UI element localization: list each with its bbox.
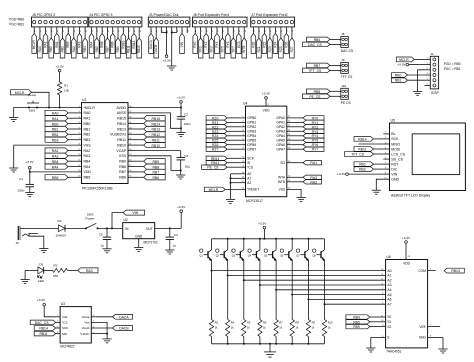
capacitor C4 1u: [166, 228, 178, 250]
net label RB3 (TFT D/C): [354, 167, 383, 172]
svg-text:S1: S1: [387, 320, 391, 324]
svg-text:1µ: 1µ: [100, 244, 104, 248]
svg-text:+3.3V: +3.3V: [25, 160, 34, 164]
net label RB0 (U1 pin 4): [45, 121, 77, 126]
resistor R7 1k: [274, 290, 283, 344]
net label RB15 (U1): [133, 116, 166, 121]
svg-text:MCLR: MCLR: [15, 91, 25, 95]
net label RY1 (J6 pin 2): [198, 27, 203, 58]
svg-text:R1: R1: [64, 84, 68, 88]
net label RB2 (TFT RST): [354, 162, 383, 167]
svg-text:J7 Port Expander Port2: J7 Port Expander Port2: [251, 13, 287, 17]
svg-text:RB7: RB7: [152, 171, 159, 175]
svg-text:PGD = RB0: PGD = RB0: [444, 62, 461, 66]
svg-text:RZ0: RZ0: [212, 116, 219, 120]
svg-text:DACB: DACB: [154, 45, 158, 54]
svg-text:RY1: RY1: [199, 46, 203, 52]
svg-text:RY0: RY0: [193, 41, 197, 47]
svg-text:RB6: RB6: [152, 176, 159, 180]
svg-text:RB4: RB4: [83, 46, 87, 52]
svg-text:INTB: INTB: [242, 46, 246, 53]
net label RY6 (U4 GPA6): [291, 143, 324, 148]
net label RB6 (U1): [133, 175, 166, 180]
svg-text:RB3: RB3: [359, 168, 366, 172]
resistor R1 10k: [57, 72, 69, 108]
svg-text:RA1: RA1: [52, 117, 59, 121]
ground (C2/AVSS): [176, 132, 185, 136]
svg-text:RB0: RB0: [395, 74, 402, 78]
svg-text:GND: GND: [391, 178, 399, 182]
net label RB8 (U1): [133, 164, 166, 169]
svg-text:VDD: VDD: [84, 170, 92, 174]
net label RZ2 (J7 pin 3): [262, 27, 267, 54]
ground (C3/VSS): [176, 170, 185, 179]
svg-text:PE CS: PE CS: [341, 101, 352, 105]
svg-text:PE_CS: PE_CS: [207, 166, 219, 170]
svg-text:Vdd: Vdd: [62, 315, 68, 319]
net label RB8 (J10): [307, 89, 341, 94]
resistor R4 1k: [226, 275, 235, 343]
svg-text:OUT: OUT: [146, 227, 153, 231]
net label RB10 (U1): [133, 143, 166, 148]
transistor Q6: [280, 239, 292, 295]
net label RB14 (U3 SCK): [34, 326, 56, 331]
wire TFT MISO stub: [358, 143, 383, 145]
svg-text:INTB: INTB: [278, 180, 285, 184]
svg-text:J4 PIC GPIO 3: J4 PIC GPIO 3: [89, 13, 112, 17]
net label RA0 (LED): [78, 268, 98, 273]
net label RZ6 (U4 GPB6): [206, 143, 241, 148]
svg-text:MCP4822: MCP4822: [60, 345, 74, 349]
wire J3 pins 5+6 to ground: [171, 27, 179, 66]
svg-text:DACB: DACB: [119, 327, 129, 331]
svg-text:A3: A3: [387, 283, 391, 287]
svg-text:LCD_CS: LCD_CS: [391, 152, 405, 156]
svg-text:A4: A4: [387, 288, 391, 292]
svg-text:RB7: RB7: [105, 46, 109, 52]
wire U3 *LDAC to ground: [96, 333, 107, 335]
capacitor C3 10u (VCAP): [133, 151, 191, 172]
net label TFT_CS (J9): [303, 68, 341, 73]
svg-text:J3 Power/DAC Out: J3 Power/DAC Out: [149, 13, 179, 17]
svg-text:RB5: RB5: [95, 46, 99, 52]
svg-text:RB2: RB2: [52, 133, 59, 137]
svg-text:GPA4: GPA4: [276, 134, 285, 138]
net label RB4 (J8): [307, 37, 341, 42]
wire Q1 emitter to U6 A0: [211, 270, 386, 272]
svg-text:SCK: SCK: [391, 137, 399, 141]
svg-text:RB15: RB15: [117, 117, 126, 121]
svg-text:VEE: VEE: [419, 325, 425, 329]
net label RY5 (U4 GPA5): [291, 138, 324, 143]
net label RB11 (J4 pin 8): [126, 27, 131, 58]
net label RZ5 (U4 GPB5): [206, 138, 241, 143]
wire U1 AVDD to +3.3V: [133, 103, 183, 108]
svg-text:GPA6: GPA6: [276, 143, 285, 147]
svg-text:AVSS: AVSS: [117, 111, 127, 115]
net label RZ4 (U4 GPB4): [206, 134, 241, 139]
svg-text:RB12: RB12: [152, 133, 161, 137]
net label RB14 (U4 SCK): [206, 156, 241, 161]
svg-text:RY7: RY7: [231, 46, 235, 52]
svg-text:VDD: VDD: [263, 109, 271, 113]
transistor Q5: [264, 239, 276, 290]
resistor R10 1k: [322, 304, 333, 344]
svg-text:A6: A6: [387, 298, 391, 302]
net label RZ0 (U4 GPB0): [206, 116, 241, 121]
svg-text:GPA0: GPA0: [276, 116, 285, 120]
svg-text:ICSP: ICSP: [431, 91, 439, 95]
svg-text:SO: SO: [280, 161, 285, 165]
connector J1 (ICSP): [425, 52, 439, 89]
transistor Q1: [200, 239, 212, 271]
net label RY2 (J6 pin 3): [204, 27, 209, 54]
svg-text:RB7: RB7: [119, 170, 126, 174]
net label RZ7 (J7 pin 8): [290, 27, 295, 58]
svg-text:C5: C5: [99, 232, 103, 236]
svg-text:GPB0: GPB0: [247, 116, 256, 120]
svg-text:RY4: RY4: [312, 134, 319, 138]
svg-text:R9: R9: [312, 321, 316, 325]
svg-text:J1: J1: [431, 52, 435, 56]
net label RB0 (J5 pin 4): [49, 27, 54, 58]
svg-text:GPA7: GPA7: [276, 147, 285, 151]
wire J2 to D2: [24, 227, 58, 229]
svg-text:RA2: RA2: [72, 46, 76, 52]
svg-text:D5: D5: [39, 262, 43, 266]
net label RB5 (U1 pin 14): [45, 175, 77, 180]
net label RY7 (J6 pin 8): [231, 27, 236, 58]
svg-text:RB10: RB10: [121, 40, 125, 48]
net label RA2 (U4 INTB): [291, 180, 321, 185]
wire ground to LED: [25, 269, 38, 271]
svg-text:RB0: RB0: [84, 122, 91, 126]
net label RB2 (J5 pin 6): [60, 27, 65, 58]
wire SW2 to U2 IN: [98, 227, 123, 229]
switch SW2 Power: [85, 213, 99, 230]
net label RB1 (ICSP PGC): [392, 78, 425, 83]
net label RB13 (U1): [133, 126, 166, 131]
svg-text:SCK: SCK: [62, 326, 69, 330]
svg-text:GND: GND: [419, 336, 427, 340]
svg-text:VIN: VIN: [132, 211, 138, 215]
svg-text:PIC32MX250F128B: PIC32MX250F128B: [82, 186, 113, 190]
svg-text:TFT CS: TFT CS: [341, 75, 353, 79]
svg-text:R10: R10: [328, 321, 333, 325]
net label PE_CS (J10): [303, 94, 341, 99]
ground (C5): [102, 249, 111, 253]
svg-text:U2: U2: [124, 218, 128, 222]
ground (SW1): [9, 118, 18, 122]
svg-text:U3: U3: [61, 302, 65, 306]
svg-text:A7: A7: [387, 302, 391, 306]
svg-text:E: E: [387, 336, 389, 340]
wire J3 pin 8 stub: [187, 27, 189, 33]
wire U2 OUT to +3.3V: [155, 213, 182, 230]
connector J9: [339, 58, 349, 73]
svg-text:A0: A0: [387, 269, 391, 273]
svg-text:RA4: RA4: [52, 165, 59, 169]
svg-text:RB6: RB6: [119, 176, 126, 180]
label TFT CS: [341, 75, 353, 79]
svg-text:RB2: RB2: [359, 163, 366, 167]
net label RY4 (U4 GPA4): [291, 134, 324, 139]
svg-text:RZ6: RZ6: [212, 143, 219, 147]
svg-text:R7: R7: [279, 321, 283, 325]
svg-text:RB14: RB14: [358, 137, 367, 141]
net label RY0 (U4 GPA0): [291, 116, 324, 121]
svg-text:A2: A2: [247, 181, 251, 185]
svg-text:DAC_CS: DAC_CS: [308, 43, 322, 47]
power +3.3V (U1 VDD): [25, 160, 34, 169]
net label RB14 (TFT SCK): [354, 137, 383, 142]
svg-text:DAC CS: DAC CS: [341, 49, 354, 53]
net label RA4 (U1 pin 12): [45, 164, 77, 169]
connector J5: [32, 13, 88, 27]
svg-text:RZ4: RZ4: [212, 134, 219, 138]
svg-text:RB4: RB4: [52, 160, 59, 164]
net label MCLR (J5 pin 1): [32, 27, 37, 54]
svg-text:GPA2: GPA2: [276, 125, 285, 129]
svg-text:RB14: RB14: [152, 122, 161, 126]
net label RY0 (J6 pin 1): [193, 27, 198, 54]
power +3.3V (U6 VDD): [402, 236, 411, 244]
svg-text:RB3: RB3: [84, 138, 91, 142]
wire SW1 to ground: [14, 108, 29, 118]
svg-text:PGD=RB0: PGD=RB0: [9, 18, 24, 22]
connector J3: [148, 13, 190, 27]
svg-text:*MCLR: *MCLR: [84, 106, 96, 110]
svg-text:MISO: MISO: [391, 142, 400, 146]
net label MCLR (flag top-left): [11, 90, 50, 108]
svg-text:RB11: RB11: [358, 148, 366, 152]
svg-text:*CS: *CS: [247, 165, 253, 169]
net label RB14 (J4 pin 9): [132, 27, 137, 54]
svg-text:MCLR: MCLR: [32, 39, 36, 49]
op-amp U4 MCP23S17 (port expander): [231, 99, 292, 203]
svg-text:PGC=RB1: PGC=RB1: [9, 23, 24, 27]
net label RB12 (U1): [133, 132, 166, 137]
net label MCLR (ICSP): [396, 57, 424, 62]
svg-text:RZ6: RZ6: [284, 41, 288, 47]
wire TFT GND to ground: [376, 179, 383, 190]
svg-text:RZ0: RZ0: [251, 41, 255, 47]
power +3.3V (TFT VIN): [337, 172, 383, 176]
svg-text:RZ7: RZ7: [212, 148, 219, 152]
wire J3 pins 3+4 to +3.3V: [161, 27, 168, 55]
svg-text:Vss: Vss: [84, 321, 90, 325]
ground (below J3): [167, 66, 176, 70]
svg-text:RA1: RA1: [310, 161, 317, 165]
svg-text:RB1: RB1: [395, 79, 402, 83]
svg-text:RB14: RB14: [117, 122, 126, 126]
net label RB14 (U1): [133, 121, 166, 126]
svg-text:RY3: RY3: [312, 130, 319, 134]
svg-text:*CS: *CS: [62, 321, 68, 325]
svg-text:RB13: RB13: [152, 128, 161, 132]
svg-text:LED: LED: [38, 279, 45, 283]
svg-text:GPB3: GPB3: [247, 130, 256, 134]
svg-text:A5: A5: [387, 293, 391, 297]
svg-text:RA3: RA3: [52, 155, 59, 159]
svg-text:J5 PIC GPIO 2: J5 PIC GPIO 2: [32, 13, 55, 17]
svg-text:RZ5: RZ5: [279, 46, 283, 52]
svg-text:RZ2: RZ2: [262, 41, 266, 47]
svg-text:A0: A0: [247, 172, 251, 176]
power +3.3V (R1 pull-up): [56, 64, 65, 71]
power +3.3V (ICSP pin 2): [397, 63, 424, 67]
transistor Q8: [313, 239, 325, 304]
net label RA0 (U1 pin 2): [45, 110, 77, 115]
svg-text:+3.3V: +3.3V: [397, 63, 406, 67]
net label RB11 (U3 SDI): [34, 331, 56, 336]
svg-text:GPA1: GPA1: [276, 121, 285, 125]
resistor R5 1k: [242, 280, 251, 344]
net label RY2 (U4 GPA2): [291, 125, 324, 130]
net label RY4 (J6 pin 5): [215, 27, 220, 54]
connector J7: [251, 13, 295, 27]
net label RA3 (J5 pin 9): [77, 27, 82, 54]
svg-text:RY6: RY6: [312, 143, 319, 147]
wire +3.3V collector rail: [212, 238, 325, 240]
net label RA4 (J4 pin 1): [89, 27, 94, 54]
resistor R3 1k: [209, 271, 218, 344]
ground (U3): [103, 339, 112, 343]
svg-text:+3.3V: +3.3V: [163, 59, 172, 63]
svg-text:INTA: INTA: [237, 40, 241, 48]
svg-text:100n: 100n: [184, 122, 191, 126]
capacitor C5 1u: [99, 228, 112, 248]
op-amp U3 MCP4822 (DAC): [56, 302, 96, 349]
svg-text:MCLR: MCLR: [399, 58, 409, 62]
svg-text:RB5: RB5: [84, 176, 91, 180]
svg-text:RZ5: RZ5: [212, 139, 219, 143]
svg-text:RB7: RB7: [314, 64, 321, 68]
power +3.3V (U1 AVDD): [177, 96, 186, 104]
wire U1 VSS to ground: [14, 145, 77, 168]
svg-text:BL: BL: [391, 132, 395, 136]
net label DAC_CS (U3 *CS): [30, 320, 56, 325]
net label RZ2 (U4 GPB2): [206, 125, 241, 130]
svg-text:C1: C1: [19, 177, 23, 181]
svg-text:R4: R4: [231, 321, 235, 325]
svg-text:10k: 10k: [64, 89, 69, 93]
svg-text:RB3: RB3: [66, 41, 70, 47]
svg-text:VSS: VSS: [279, 188, 285, 192]
svg-text:RB9: RB9: [152, 160, 159, 164]
svg-text:PE_CS: PE_CS: [309, 95, 321, 99]
svg-text:SI: SI: [247, 161, 250, 165]
net label TFT_CS (TFT LCD_CS): [345, 152, 384, 157]
label DAC CS: [341, 49, 354, 53]
connector J8: [339, 32, 349, 47]
svg-text:RY2: RY2: [204, 41, 208, 47]
wire U4 A0 A1 A2 to ground: [230, 174, 232, 200]
svg-text:RB0: RB0: [49, 46, 53, 52]
net label RB9 (U1): [133, 159, 166, 164]
svg-text:D2: D2: [58, 219, 62, 223]
svg-text:RB0: RB0: [52, 122, 59, 126]
svg-text:C2: C2: [184, 112, 188, 116]
ground (C1): [25, 193, 34, 197]
net label RB4 (U1 pin 11): [45, 159, 77, 164]
net label PE_CS (U4 *CS): [202, 165, 242, 170]
svg-text:SW1: SW1: [29, 109, 36, 113]
svg-text:VUSB3V3: VUSB3V3: [110, 133, 126, 137]
net label RB4 (J5 pin 10): [83, 27, 88, 58]
svg-text:100n: 100n: [18, 189, 25, 193]
svg-text:Adafruit TFT LCD Display: Adafruit TFT LCD Display: [391, 194, 430, 198]
wire J2 sleeve to ground: [29, 236, 44, 248]
svg-text:+3.3V: +3.3V: [56, 64, 65, 68]
op-amp U6 74HC4051 (analog mux): [379, 243, 444, 353]
net label RB13 (U6 COM): [444, 268, 464, 273]
svg-text:S2: S2: [387, 325, 391, 329]
net label RB2 (U1 pin 6): [45, 132, 77, 137]
svg-text:*RESET: *RESET: [247, 188, 259, 192]
svg-text:RA4: RA4: [84, 165, 91, 169]
wire U6 E to ground: [371, 338, 379, 349]
svg-text:GPA3: GPA3: [276, 130, 285, 134]
op-amp U5 Adafruit TFT LCD Display: [383, 119, 465, 198]
svg-text:SCK: SCK: [247, 157, 254, 161]
svg-text:RA3: RA3: [78, 41, 82, 47]
capacitor C1 100n: [18, 172, 35, 193]
net label INTA (J6 pin 9): [237, 27, 242, 54]
svg-text:RA3: RA3: [84, 154, 91, 158]
svg-text:GPB1: GPB1: [247, 121, 256, 125]
svg-text:MCLR: MCLR: [209, 188, 219, 192]
svg-text:COM: COM: [418, 269, 426, 273]
svg-text:RB5: RB5: [52, 176, 59, 180]
net label RZ6 (J7 pin 7): [284, 27, 289, 54]
svg-text:RB13: RB13: [451, 269, 460, 273]
wire U1 VDD to +3.3V: [29, 169, 77, 173]
resistor R6 1k: [258, 285, 267, 344]
net label RB9 (J4 pin 6): [116, 27, 121, 58]
net label RA3 (U1 pin 10): [45, 153, 77, 158]
net label RZ1 (J7 pin 2): [257, 27, 262, 58]
svg-text:RB1: RB1: [55, 41, 59, 47]
net label RB5 (J4 pin 2): [95, 27, 100, 58]
net label VIN (power): [112, 210, 145, 228]
svg-text:+3.3V: +3.3V: [177, 96, 186, 100]
power +3.3V (U4 VDD): [262, 92, 271, 100]
svg-text:D/C: D/C: [391, 167, 398, 171]
svg-text:*LDAC: *LDAC: [80, 332, 90, 336]
svg-text:RZ4: RZ4: [273, 41, 277, 47]
svg-text:R3: R3: [215, 321, 219, 325]
ground (LED): [21, 270, 30, 283]
net label RB4 (U6 select): [346, 315, 379, 320]
svg-text:RB14: RB14: [132, 40, 136, 48]
net label RZ0 (J7 pin 1): [251, 27, 256, 54]
svg-text:MCP1702: MCP1702: [144, 240, 158, 244]
svg-text:DAC_CS: DAC_CS: [35, 321, 49, 325]
svg-text:RB10: RB10: [152, 144, 161, 148]
svg-text:SDI: SDI: [62, 332, 67, 336]
svg-text:RB9: RB9: [119, 160, 126, 164]
svg-text:RB9: RB9: [353, 325, 360, 329]
wire Q7 emitter to U6 A6: [307, 298, 385, 300]
svg-text:U6: U6: [386, 255, 390, 259]
svg-text:RY5: RY5: [312, 139, 319, 143]
ground (U6 GND): [438, 349, 447, 353]
svg-text:RB2: RB2: [84, 133, 91, 137]
svg-text:RB11: RB11: [211, 161, 219, 165]
net label RY6 (J6 pin 7): [226, 27, 231, 54]
svg-text:U5: U5: [391, 119, 395, 123]
